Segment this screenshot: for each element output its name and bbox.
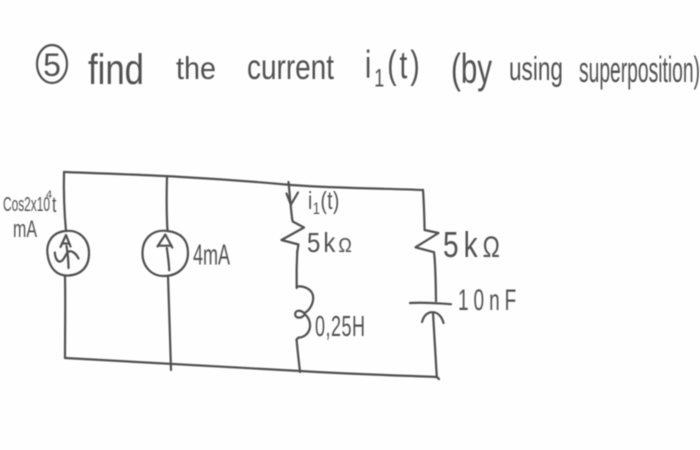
svg-text:5kΩ: 5kΩ [443, 224, 505, 264]
wire: bottom rail from bottom-left to bottom-right corner [65, 358, 437, 377]
svg-text:current: current [247, 47, 334, 87]
resistor R2 5k ohm (zigzag) [416, 230, 439, 252]
label: cos2x10^4 t mA (value of source I1) [3, 189, 57, 243]
svg-text:Cos2x10: Cos2x10 [3, 193, 50, 216]
wire: branch 2 below source I2 to bottom rail (with overshoot) [168, 276, 171, 370]
wire: branch 2 from top rail down to source I2 [166, 177, 169, 231]
svg-text:find: find [88, 46, 144, 93]
arrow: i1(t) current direction arrowhead [287, 193, 299, 205]
svg-text:using: using [509, 51, 563, 88]
wire: left vertical below source I1 to bottom-left corner [64, 276, 66, 358]
wire: right vertical between R2 and capacitor [434, 252, 436, 301]
wire: left vertical (top-left corner down to source I1) [64, 172, 66, 231]
svg-text:5: 5 [43, 47, 61, 83]
svg-text:t: t [52, 192, 57, 217]
svg-text:mA: mA [13, 217, 37, 243]
capacitor C1 10nF (straight top plate, curved bottom plate) [410, 303, 451, 323]
title: problem number circled 5 [37, 45, 67, 83]
wire: branch 3 below inductor to bottom rail [297, 340, 300, 372]
svg-text:0,25H: 0,25H [315, 311, 366, 343]
svg-text:4mA: 4mA [193, 239, 230, 271]
wire: right vertical below capacitor to bottom-right corner (with tail) [433, 313, 439, 379]
svg-text:(by: (by [451, 47, 492, 93]
wire: branch 3 between R1 and inductor [296, 252, 299, 288]
current source I1 (cos source) [47, 231, 89, 276]
inductor L1 0.25H (two bumps with loop) [295, 286, 313, 339]
wire: branch 3 from top rail down (current arrow shaft) [289, 182, 293, 218]
svg-text:superposition): superposition) [579, 51, 700, 91]
svg-text:10nF: 10nF [458, 285, 521, 317]
svg-text:5kΩ: 5kΩ [307, 229, 355, 259]
current source I2 [142, 231, 188, 276]
wire: right vertical from top-right corner down to R2 [423, 190, 425, 230]
wire: top rail from left corner to right corner [64, 172, 423, 190]
svg-text:i1(t): i1(t) [365, 43, 423, 92]
svg-text:the: the [176, 51, 216, 86]
resistor R1 5k ohm (zigzag) [282, 218, 305, 252]
svg-text:i1(t): i1(t) [308, 187, 340, 219]
